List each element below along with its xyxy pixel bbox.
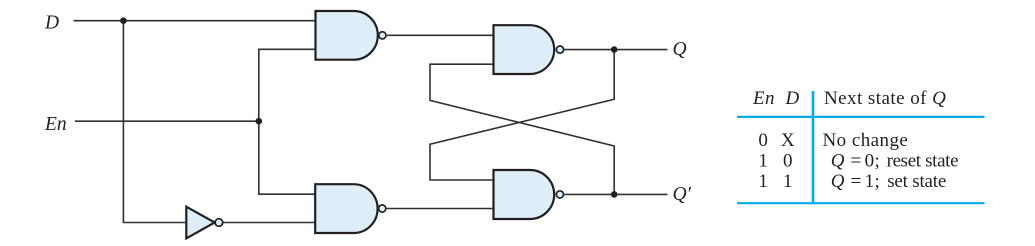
wire Q' output bbox=[564, 193, 667, 195]
svg-text:1: 1 bbox=[758, 171, 768, 192]
wire inverter output to U3 input bbox=[223, 222, 315, 224]
bubble U4 bbox=[556, 191, 563, 198]
bubble U1 bbox=[379, 32, 386, 39]
svg-text:En: En bbox=[752, 88, 775, 109]
wire Q feedback to U4 bbox=[430, 50, 614, 180]
node D junction bbox=[120, 17, 127, 24]
NAND gate U2 bbox=[494, 25, 555, 74]
svg-text:0: 0 bbox=[783, 151, 793, 172]
svg-text:No change: No change bbox=[823, 130, 909, 151]
svg-text:X: X bbox=[781, 130, 795, 151]
NAND gate U4 bbox=[494, 170, 555, 219]
svg-text:Q=1;set state: Q=1;set state bbox=[831, 171, 946, 192]
node Q' junction bbox=[611, 191, 618, 198]
bubble U3 bbox=[379, 205, 386, 212]
svg-text:D: D bbox=[44, 12, 59, 33]
node En junction bbox=[255, 118, 262, 125]
wire Q output bbox=[564, 49, 667, 51]
wire U3 output to U4 input bbox=[387, 208, 494, 210]
svg-text:Q: Q bbox=[673, 39, 687, 60]
svg-text:1: 1 bbox=[783, 171, 793, 192]
wire En vertical branch to U1 and U3 bbox=[259, 49, 316, 194]
svg-text:D: D bbox=[785, 88, 800, 109]
table rule top bbox=[737, 116, 985, 118]
bubble U2 bbox=[556, 46, 563, 53]
node Q junction bbox=[611, 46, 618, 53]
table rule bottom bbox=[737, 202, 985, 204]
wire Q' feedback to U2 bbox=[430, 64, 614, 194]
svg-text:0: 0 bbox=[758, 130, 768, 151]
wire D vertical branch to inverter bbox=[123, 21, 186, 223]
table rule vertical bbox=[812, 91, 815, 204]
svg-text:Next state of Q: Next state of Q bbox=[824, 88, 946, 109]
NAND gate U1 bbox=[316, 11, 378, 60]
NAND gate U3 bbox=[315, 184, 377, 233]
wire D horizontal bbox=[74, 20, 316, 22]
svg-text:Q′: Q′ bbox=[673, 184, 692, 205]
wire En horizontal bbox=[75, 120, 259, 122]
inverter bbox=[186, 207, 214, 239]
bubble inverter bbox=[215, 219, 223, 227]
wire U1 output to U2 input bbox=[387, 34, 494, 36]
svg-text:En: En bbox=[44, 114, 67, 135]
svg-text:Q=0;reset state: Q=0;reset state bbox=[831, 151, 958, 172]
svg-text:1: 1 bbox=[758, 151, 768, 172]
